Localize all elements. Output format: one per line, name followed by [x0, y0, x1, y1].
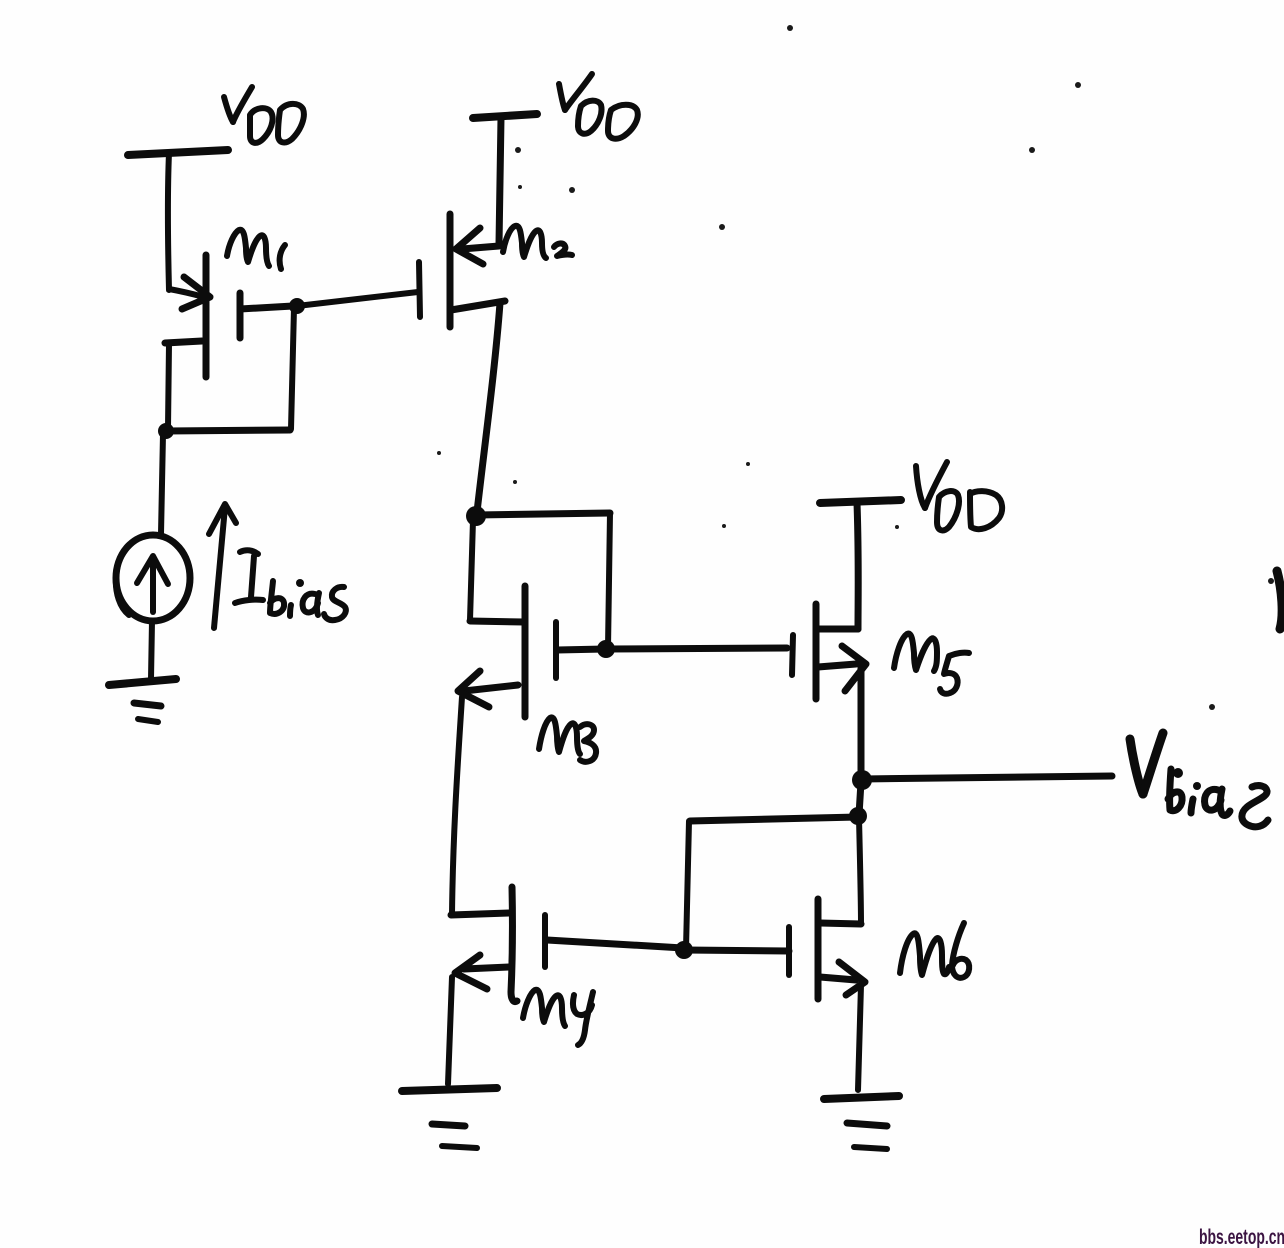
svg-text:bbs.eetop.cn: bbs.eetop.cn: [1199, 1226, 1284, 1248]
